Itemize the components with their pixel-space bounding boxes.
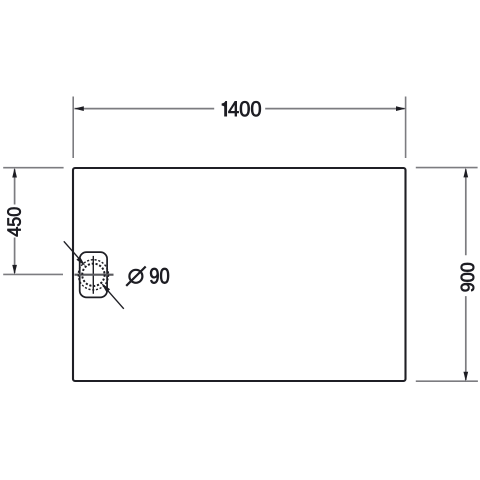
extension line left-top (horizontal) xyxy=(3,167,63,169)
leader line lower-right from drain xyxy=(107,290,124,309)
arrowhead top of 450 dimension xyxy=(12,168,17,178)
extension line left-bottom (horizontal) xyxy=(3,273,63,275)
dimension line 450 (vertical, gap for text) xyxy=(14,169,16,273)
extension line right-bottom (horizontal) xyxy=(416,380,478,382)
arrowhead bottom of 900 dimension xyxy=(463,372,468,382)
extension line right-top (horizontal) xyxy=(416,167,478,169)
arrowhead top of 900 dimension xyxy=(463,168,468,178)
extension line top-left (vertical) xyxy=(72,97,74,159)
arrowhead left of 1400 dimension xyxy=(74,106,84,111)
drain cover rounded rectangle xyxy=(80,252,107,297)
arrowhead right of 1400 dimension xyxy=(396,106,406,111)
tray outline 1400x900 xyxy=(73,168,406,381)
label 90 (drain diameter) xyxy=(150,268,169,284)
drain flange circle (dashed) xyxy=(78,260,108,290)
label 450 (rotated) xyxy=(7,207,20,236)
dimension line 1400 (horizontal, gap for text) xyxy=(74,108,404,110)
arrowhead of upper leader xyxy=(76,257,85,267)
drain horizontal centerline xyxy=(75,274,114,276)
leader line upper-left pointing to drain xyxy=(64,241,80,259)
drain hole circle 90mm (dotted) xyxy=(82,264,104,286)
arrowhead bottom of 450 dimension xyxy=(12,265,17,275)
label 1400 xyxy=(222,101,261,116)
dimension line 900 (vertical, gap for text) xyxy=(465,169,467,380)
extension line top-right (vertical) xyxy=(405,97,407,159)
diameter symbol of the 90 label xyxy=(126,267,146,286)
drain vertical centerline xyxy=(92,256,94,294)
arrowhead of lower leader xyxy=(101,283,110,293)
label 900 (rotated) xyxy=(461,263,474,291)
